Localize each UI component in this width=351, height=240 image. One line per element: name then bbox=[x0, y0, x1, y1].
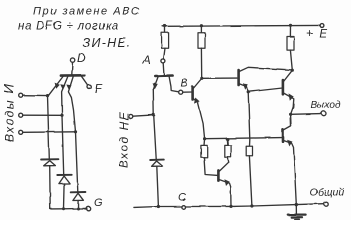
svg-text:G: G bbox=[94, 197, 103, 209]
ground symbol bbox=[288, 215, 306, 220]
resistor R5 bbox=[225, 145, 231, 157]
wire НЕ vertical lower bbox=[157, 166, 159, 206]
wire R5 to V5 collector bbox=[227, 157, 230, 162]
node junction R5 top bbox=[226, 138, 229, 141]
label A bbox=[142, 55, 151, 67]
svg-text:Входы И: Входы И bbox=[1, 83, 17, 142]
wire vertical to diode VD2 bbox=[62, 115, 64, 174]
label Общий bbox=[310, 187, 345, 199]
title text line 2 bbox=[18, 21, 119, 33]
wire input1 bbox=[23, 94, 48, 96]
transistor V1 base lead to D bbox=[71, 62, 74, 74]
resistor R6 bbox=[246, 146, 252, 156]
transistor V4 emitter bbox=[284, 93, 294, 114]
transistor V5 base bar bbox=[217, 170, 220, 180]
node junction V5 emitter bottom bbox=[229, 205, 232, 208]
label D bbox=[77, 51, 86, 65]
svg-text:Выход: Выход bbox=[311, 100, 341, 111]
node junction rail R2 bbox=[200, 24, 203, 27]
transistor V6 emitter bbox=[284, 141, 297, 205]
label Вход НЕ (rotated) bbox=[117, 111, 131, 169]
input terminal 3 bbox=[19, 130, 23, 134]
label Входы И (rotated) bbox=[1, 83, 17, 142]
transistor V5 collector bbox=[219, 162, 229, 171]
node junction rail R3 bbox=[289, 24, 292, 27]
transistor V2 base bar bbox=[191, 87, 194, 100]
transistor V3 emitter bbox=[239, 84, 248, 92]
diode VD2 bbox=[57, 175, 71, 184]
transistor V1 emitter 1 bbox=[49, 77, 63, 96]
terminal G bbox=[86, 206, 90, 210]
transistor V3 base bar bbox=[237, 70, 240, 85]
wire R3 to rail bbox=[289, 25, 291, 36]
label F bbox=[95, 82, 103, 96]
terminal Вход НЕ bbox=[129, 114, 133, 118]
wire R1 to node A bbox=[164, 48, 165, 59]
wire V3 emitter down to R6 bbox=[248, 92, 250, 146]
wire B to V2 base bbox=[183, 91, 193, 93]
label +E bbox=[307, 29, 329, 41]
node junction V2 collector bbox=[200, 77, 203, 80]
transistor V3 collector bbox=[239, 67, 292, 71]
svg-text:C: C bbox=[178, 192, 186, 204]
wire input2 bbox=[23, 114, 62, 116]
wire output to Выход bbox=[291, 113, 322, 116]
transistor V2 emitter bbox=[193, 99, 204, 139]
transistor V4 base bar bbox=[282, 80, 285, 94]
wire V2 emitter node to mid bus bbox=[203, 137, 206, 140]
wire to ground bbox=[295, 205, 297, 215]
svg-text:Общий: Общий bbox=[310, 187, 345, 199]
resistor R4 bbox=[201, 145, 207, 157]
node junction VD2 bottom bbox=[62, 207, 65, 210]
node junction НЕ bottom bbox=[157, 205, 160, 208]
wire rail to R1 bbox=[164, 26, 166, 33]
transistor V6 base bar bbox=[282, 130, 285, 142]
resistor R2 bbox=[198, 33, 205, 49]
transistor V1 emitter 2 bbox=[62, 77, 68, 116]
wire V2 collector to V3 base bbox=[202, 77, 237, 79]
diode VD4 bbox=[150, 160, 164, 167]
wire node A to V1b base bbox=[162, 63, 165, 75]
wire vertical to diode VD3 bbox=[76, 132, 78, 192]
node A terminal bbox=[161, 59, 165, 63]
input terminal 2 bbox=[19, 113, 23, 117]
svg-text:При замене АВС: При замене АВС bbox=[33, 6, 140, 18]
node junction VD3 bottom bbox=[77, 207, 80, 210]
transistor V1 multi-emitter base bar bbox=[61, 74, 84, 77]
svg-text:на DFG ÷ логика: на DFG ÷ логика bbox=[18, 21, 119, 33]
wire mid bus bbox=[205, 138, 282, 139]
wire R4 top bbox=[203, 139, 206, 146]
transistor V1b base bar bbox=[155, 74, 172, 77]
terminal Выход bbox=[322, 111, 326, 115]
svg-text:ЗИ-НЕ.: ЗИ-НЕ. bbox=[83, 36, 132, 50]
label G bbox=[94, 197, 103, 209]
svg-text:B: B bbox=[181, 78, 188, 90]
svg-text:F: F bbox=[95, 82, 103, 96]
wire R2 to collector node bbox=[200, 48, 202, 78]
title text line 1 bbox=[33, 6, 140, 18]
node junction ground bbox=[295, 203, 298, 206]
diode VD3 bbox=[71, 192, 86, 201]
transistor V6 collector bbox=[284, 114, 291, 130]
wire diode VD2 to bottom bbox=[63, 184, 66, 209]
transistor V2 collector bbox=[193, 79, 201, 89]
wire R6 to bottom rail bbox=[249, 156, 252, 206]
wire R2 to rail bbox=[200, 26, 202, 33]
terminal B bbox=[179, 90, 183, 94]
transistor V1b emitter bbox=[153, 77, 158, 90]
svg-text:+ E: + E bbox=[307, 29, 329, 41]
wire НЕ input bbox=[133, 115, 154, 116]
terminal C on rail bbox=[181, 205, 185, 209]
svg-text:D: D bbox=[77, 51, 86, 65]
input terminal 1 bbox=[19, 93, 23, 97]
node junction rail R1 bbox=[163, 24, 166, 27]
wire bottom rail C bbox=[134, 204, 324, 208]
label B bbox=[181, 78, 188, 90]
resistor R3 bbox=[287, 37, 294, 51]
resistor R1 bbox=[162, 33, 169, 49]
node junction НЕ input bbox=[152, 113, 155, 116]
wire НЕ vertical upper bbox=[153, 90, 156, 159]
title text line 3 bbox=[83, 36, 132, 50]
node junction input1 bbox=[46, 94, 49, 97]
terminal Общий bbox=[324, 202, 328, 206]
node junction input3 bbox=[74, 130, 77, 133]
svg-text:A: A bbox=[142, 55, 151, 67]
wire input3 bbox=[23, 131, 76, 134]
node junction R6 bottom bbox=[250, 204, 253, 207]
wire diode VD3 to bottom bbox=[77, 201, 79, 209]
wire R4 to V5 base bbox=[204, 157, 218, 175]
node junction input2 bbox=[60, 114, 63, 117]
wire R3 to V4 collector node bbox=[290, 50, 292, 70]
transistor V1 lead to F bbox=[82, 76, 88, 85]
node junction V3 emitter bbox=[247, 90, 250, 93]
wire bottom G bus bbox=[50, 207, 86, 210]
transistor V4 collector bbox=[284, 71, 293, 82]
wire +E top rail bbox=[163, 24, 320, 27]
terminal +E bbox=[320, 24, 324, 28]
wire diode VD1 to bottom bbox=[49, 166, 52, 209]
node junction output bbox=[289, 113, 292, 116]
svg-text:Вход НЕ: Вход НЕ bbox=[117, 111, 131, 169]
diode VD1 bbox=[41, 159, 58, 166]
transistor V5 emitter bbox=[219, 180, 231, 207]
transistor V1b collector to B bbox=[169, 77, 178, 92]
node junction V4 collector bbox=[291, 69, 294, 72]
terminal F bbox=[87, 85, 91, 89]
wire V3 emitter to V4 base bbox=[248, 88, 282, 92]
transistor V1 emitter 3 bbox=[68, 77, 75, 132]
wire R5 top bbox=[226, 139, 229, 145]
wire vertical to diode VD1 bbox=[48, 96, 50, 159]
terminal D bbox=[70, 58, 74, 62]
label C bbox=[178, 192, 186, 204]
label Выход bbox=[311, 100, 341, 111]
